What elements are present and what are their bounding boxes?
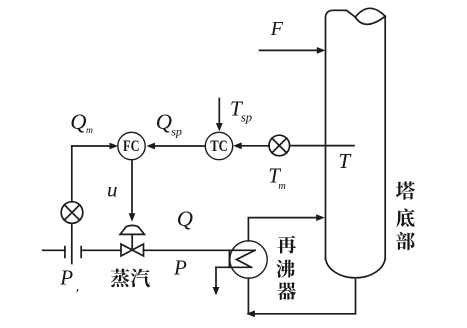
arrowhead into TC bbox=[233, 142, 242, 149]
controller TC bbox=[205, 132, 232, 159]
wire: steam pipe valve to reboiler bbox=[144, 249, 256, 251]
distillation column shell (tower bottom) bbox=[326, 10, 386, 278]
flow transmitter (crossed circle) bbox=[61, 202, 83, 224]
wire: steam pipe to valve bbox=[81, 249, 121, 251]
arrowhead condensate drain bbox=[213, 287, 220, 295]
orifice flange tick left bbox=[64, 247, 66, 258]
svg-text:m: m bbox=[278, 181, 286, 192]
arrowhead Tsp bbox=[216, 123, 223, 131]
arrowhead feed F bbox=[317, 47, 326, 54]
wire: setpoint Tsp into TC bbox=[218, 99, 220, 125]
svg-text:Q: Q bbox=[156, 109, 172, 134]
label reboiler (zai fei qi) bbox=[276, 236, 296, 300]
arrowhead into FC right bbox=[146, 143, 155, 150]
wire: sensor probe into steam pipe bbox=[71, 223, 73, 263]
label steam (zheng qi) bbox=[111, 269, 150, 288]
arrowhead bottoms into reboiler leg bbox=[246, 310, 255, 317]
wire: feed F line into column bbox=[260, 49, 319, 51]
column top break symbol bbox=[355, 8, 385, 24]
control valve body bbox=[121, 244, 144, 256]
svg-text:Q: Q bbox=[70, 109, 86, 134]
wire: sensor to TC bbox=[241, 145, 270, 147]
reboiler tube coil bbox=[216, 250, 255, 267]
svg-text:T: T bbox=[338, 149, 352, 173]
wire: steam pipe left segment bbox=[43, 249, 65, 251]
wire: column bottoms down and left bbox=[255, 280, 356, 314]
svg-text:sp: sp bbox=[241, 111, 252, 125]
wire: reboiler vapor riser to column bbox=[248, 218, 317, 241]
valve stem bbox=[131, 234, 133, 249]
arrowhead u bbox=[129, 213, 136, 221]
svg-text:P: P bbox=[59, 266, 73, 290]
label column bottom (ta di bu) bbox=[396, 181, 415, 250]
svg-text:sp: sp bbox=[171, 124, 182, 138]
arrowhead into FC left bbox=[110, 143, 119, 150]
wire: vertical from Qm corner down to flow sensor bbox=[71, 146, 73, 202]
svg-text:Q: Q bbox=[177, 206, 193, 231]
control valve actuator dome bbox=[120, 225, 144, 234]
svg-text:P: P bbox=[173, 256, 187, 280]
svg-text:m: m bbox=[86, 126, 93, 136]
orifice flange tick right bbox=[80, 247, 82, 258]
controller FC bbox=[118, 132, 145, 159]
svg-text:u: u bbox=[107, 178, 118, 202]
wire: flow measurement Qm into FC left bbox=[72, 145, 111, 147]
svg-text:,: , bbox=[76, 280, 80, 295]
svg-text:F: F bbox=[270, 18, 284, 40]
arrowhead vapor into column bbox=[316, 214, 325, 221]
wire: FC output u to valve actuator bbox=[131, 160, 133, 215]
wire: temperature tap line T inside column to sensor bbox=[290, 145, 354, 147]
wire: reboiler bottom leg bbox=[247, 278, 249, 314]
temperature transmitter (crossed circle) bbox=[269, 135, 290, 156]
wire: TC output Qsp to FC bbox=[154, 145, 205, 147]
reboiler shell bbox=[230, 241, 267, 278]
wire: condensate drain down bbox=[215, 267, 217, 289]
svg-text:TC: TC bbox=[210, 138, 228, 155]
svg-text:FC: FC bbox=[123, 138, 140, 155]
